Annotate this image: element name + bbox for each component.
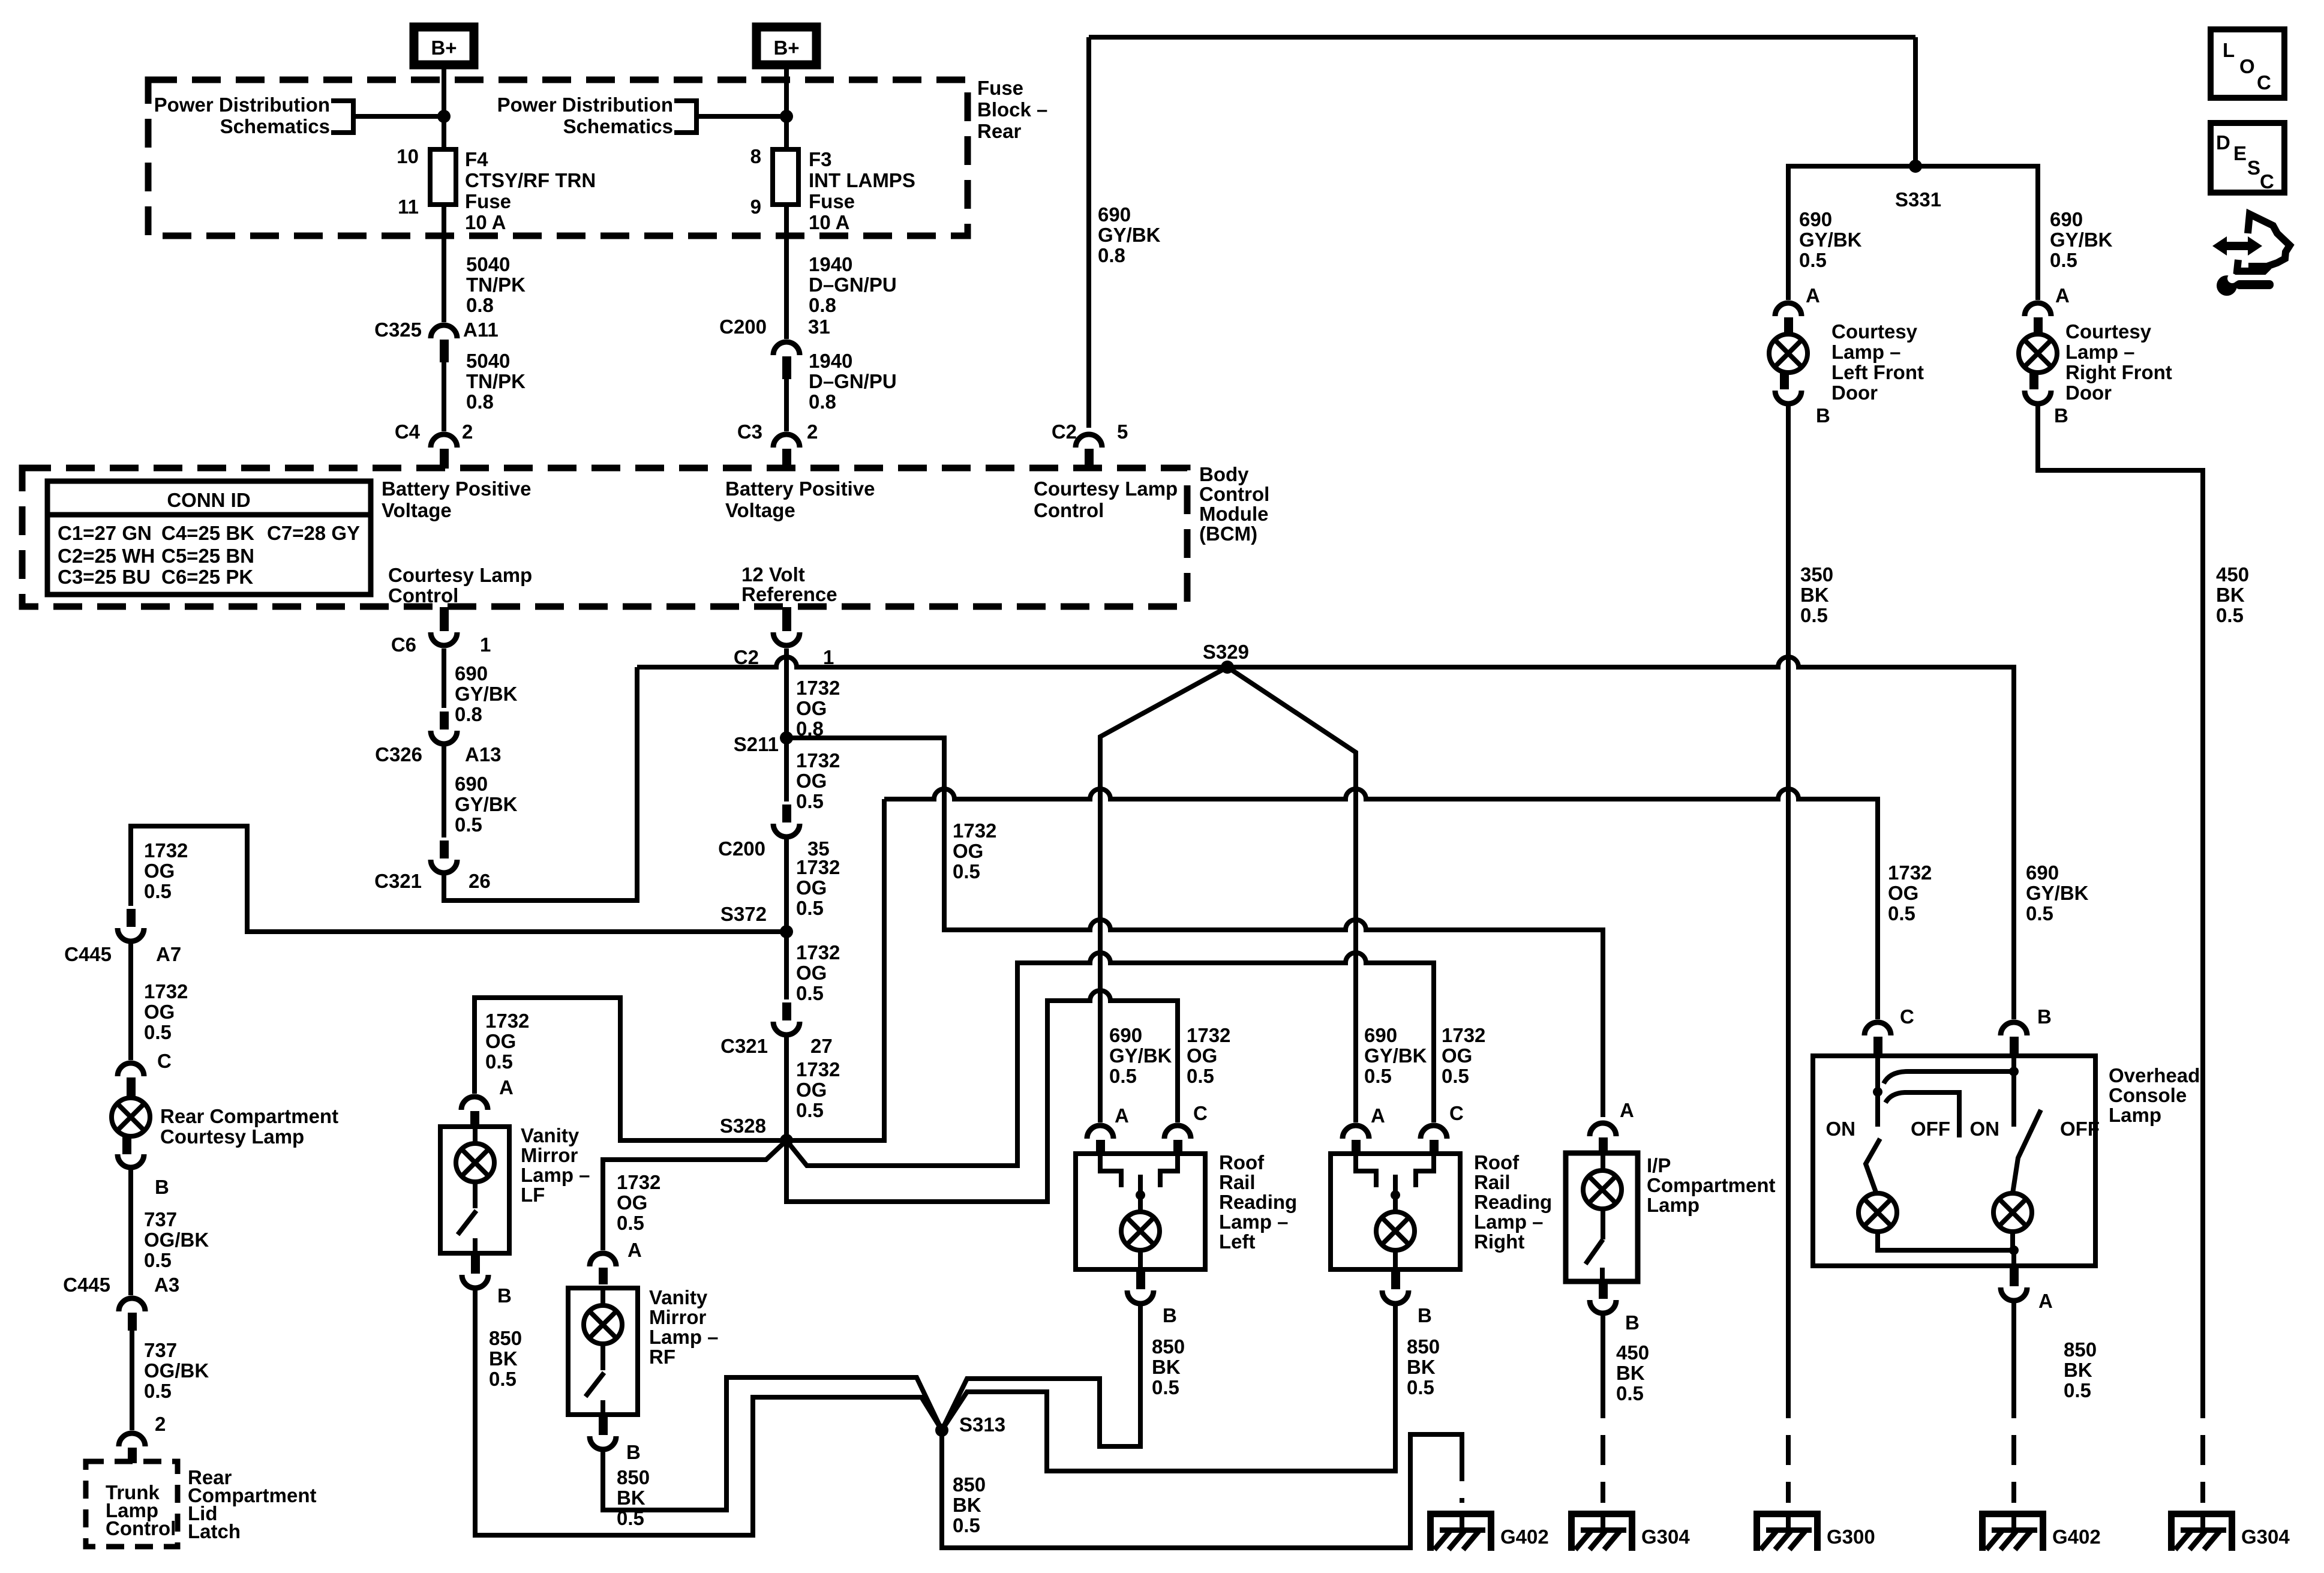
- fuse block - rear dashed outline: [148, 80, 968, 236]
- svg-text:C: C: [157, 1050, 172, 1072]
- svg-text:OG: OG: [796, 876, 827, 899]
- svg-text:31: 31: [808, 316, 830, 338]
- svg-text:690: 690: [1364, 1024, 1397, 1046]
- svg-text:737: 737: [144, 1208, 177, 1230]
- svg-text:OG: OG: [144, 860, 175, 882]
- connector C2 pin 1 (BCM bottom): [782, 607, 791, 631]
- svg-text:Schematics: Schematics: [563, 115, 673, 137]
- wire S328 to 1732 OG bus (overhead console C): [786, 799, 884, 1140]
- svg-text:850: 850: [1407, 1335, 1440, 1358]
- svg-text:C2=25 WH: C2=25 WH: [58, 545, 155, 567]
- svg-text:Lamp: Lamp: [1647, 1194, 1700, 1216]
- svg-text:1: 1: [823, 646, 834, 668]
- node: splice on F4 feed: [437, 110, 451, 123]
- svg-text:0.5: 0.5: [144, 880, 172, 902]
- wire 737 OG/BK 0.5 C445-A3 to trunk lamp control pin 2: [130, 1329, 134, 1430]
- wire 1732 OG 0.5 C200-35 to S372: [784, 839, 789, 932]
- svg-text:A13: A13: [465, 743, 502, 766]
- svg-text:Reading: Reading: [1219, 1191, 1297, 1213]
- wire 1732 OG 0.5 C321-27 to S328: [784, 1037, 789, 1140]
- wire S328 to vanity mirror lamp LF A: [475, 998, 786, 1140]
- svg-text:Courtesy Lamp: Courtesy Lamp: [1034, 478, 1178, 500]
- svg-text:GY/BK: GY/BK: [1109, 1044, 1172, 1067]
- svg-text:A3: A3: [154, 1274, 179, 1296]
- svg-text:Fuse: Fuse: [809, 190, 855, 212]
- svg-text:C: C: [1900, 1005, 1914, 1028]
- connector C321 pin 27: [782, 1002, 791, 1020]
- svg-text:0.8: 0.8: [809, 294, 836, 316]
- svg-text:850: 850: [2064, 1338, 2097, 1361]
- svg-text:BK: BK: [1152, 1356, 1181, 1378]
- svg-text:Mirror: Mirror: [649, 1306, 707, 1328]
- svg-text:B: B: [2037, 1005, 2052, 1028]
- svg-text:Courtesy Lamp: Courtesy Lamp: [388, 564, 532, 586]
- svg-text:A: A: [627, 1239, 642, 1261]
- svg-text:1732: 1732: [953, 819, 996, 842]
- svg-text:0.5: 0.5: [1187, 1065, 1214, 1087]
- svg-text:Rail: Rail: [1474, 1171, 1511, 1193]
- svg-text:27: 27: [810, 1035, 833, 1057]
- svg-text:Lamp –: Lamp –: [521, 1164, 590, 1186]
- svg-text:BK: BK: [2064, 1359, 2092, 1381]
- CONN ID table: [47, 481, 371, 595]
- svg-text:Roof: Roof: [1474, 1151, 1520, 1173]
- svg-text:1732: 1732: [796, 1058, 840, 1080]
- svg-text:5040: 5040: [466, 350, 510, 372]
- svg-text:S331: S331: [1895, 188, 1941, 211]
- svg-text:B: B: [1163, 1304, 1177, 1326]
- wire B+ to fuse F3: [784, 65, 789, 339]
- svg-text:OG: OG: [796, 1079, 827, 1101]
- svg-text:C: C: [1193, 1102, 1208, 1124]
- svg-text:1732: 1732: [796, 749, 840, 772]
- wire S328 to roof rail left C: [786, 990, 1178, 1202]
- roof rail reading lamp right connector C: [1421, 1125, 1447, 1139]
- svg-text:A: A: [1371, 1104, 1385, 1127]
- svg-text:Console: Console: [2109, 1084, 2187, 1106]
- roof rail reading lamp left connector B: [1136, 1269, 1145, 1289]
- svg-text:2: 2: [807, 421, 818, 443]
- I/P compartment lamp box: [1566, 1153, 1638, 1281]
- svg-text:OG: OG: [796, 770, 827, 792]
- svg-text:Overhead: Overhead: [2109, 1064, 2200, 1086]
- svg-text:CTSY/RF TRN: CTSY/RF TRN: [465, 169, 596, 191]
- wire 690 GY/BK 0.8 C6 to C326: [442, 649, 446, 708]
- svg-text:737: 737: [144, 1339, 177, 1361]
- wire S328 to vanity mirror lamp RF A: [603, 1140, 786, 1250]
- roof rail reading lamp left connector C: [1164, 1125, 1191, 1139]
- svg-text:Roof: Roof: [1219, 1151, 1265, 1173]
- svg-text:L: L: [2223, 39, 2235, 61]
- svg-text:0.5: 0.5: [2216, 604, 2244, 626]
- svg-text:2: 2: [155, 1413, 166, 1435]
- svg-text:C5=25 BN: C5=25 BN: [161, 545, 254, 567]
- svg-text:D–GN/PU: D–GN/PU: [809, 274, 897, 296]
- svg-text:0.5: 0.5: [144, 1380, 172, 1402]
- svg-text:1940: 1940: [809, 253, 852, 275]
- svg-text:INT LAMPS: INT LAMPS: [809, 169, 915, 191]
- svg-text:0.5: 0.5: [144, 1249, 172, 1271]
- vanity mirror lamp LF switch: [473, 1182, 478, 1208]
- svg-text:BK: BK: [1616, 1362, 1645, 1384]
- connector C326 pin A13: [440, 712, 449, 730]
- svg-text:2: 2: [462, 421, 473, 443]
- svg-text:Body: Body: [1199, 463, 1249, 485]
- svg-text:B: B: [626, 1441, 641, 1463]
- svg-text:OG: OG: [1187, 1044, 1217, 1067]
- wire 690 GY/BK 0.5 S331 to courtesy lamp right front door: [1915, 166, 2038, 300]
- svg-text:OFF: OFF: [1911, 1118, 1950, 1140]
- roof rail reading lamp right bulb: [1393, 1175, 1398, 1212]
- overhead console lamp connector B: [2001, 1022, 2027, 1035]
- svg-text:B: B: [497, 1284, 512, 1307]
- svg-text:Reading: Reading: [1474, 1191, 1552, 1213]
- svg-text:D: D: [2216, 131, 2230, 154]
- svg-text:GY/BK: GY/BK: [1364, 1044, 1427, 1067]
- node S211: [780, 731, 793, 745]
- svg-text:5040: 5040: [466, 253, 510, 275]
- svg-text:1732: 1732: [144, 980, 188, 1002]
- connector C321 pin 26: [440, 840, 449, 858]
- svg-text:0.5: 0.5: [2064, 1379, 2091, 1401]
- svg-text:0.5: 0.5: [953, 1514, 980, 1536]
- I/P compartment lamp switch: [1601, 1209, 1605, 1239]
- svg-text:690: 690: [455, 773, 488, 795]
- svg-text:Right: Right: [1474, 1230, 1524, 1253]
- svg-text:BK: BK: [489, 1347, 518, 1370]
- connector C200 pin 31: [773, 342, 800, 355]
- wire 1940 D-GN/PU 0.8 C200 to C3: [784, 379, 789, 431]
- fuse F3 INT LAMPS 10A: [773, 149, 798, 205]
- I/P compartment lamp connector B: [1599, 1279, 1608, 1299]
- svg-text:GY/BK: GY/BK: [2050, 229, 2113, 251]
- wire 690 GY/BK 0.8 BCM C2-5 to S331: [1086, 37, 1091, 428]
- svg-text:Compartment: Compartment: [1647, 1174, 1776, 1196]
- svg-text:OG: OG: [1442, 1044, 1472, 1067]
- svg-text:Control: Control: [388, 584, 458, 607]
- svg-text:F3: F3: [809, 148, 832, 170]
- svg-text:690: 690: [455, 662, 488, 685]
- svg-text:1732: 1732: [1187, 1024, 1230, 1046]
- roof rail reading lamp right contacts: [1356, 1154, 1376, 1187]
- wire 850 BK 0.5 S313 to G402: [942, 1430, 1462, 1548]
- service information icon (arrow, quarter panel, wrench): [2212, 214, 2290, 296]
- svg-text:GY/BK: GY/BK: [455, 683, 518, 705]
- roof rail reading lamp right connector A: [1343, 1125, 1369, 1139]
- svg-text:C4: C4: [395, 421, 421, 443]
- svg-text:Courtesy: Courtesy: [1831, 320, 1918, 343]
- svg-text:0.8: 0.8: [455, 703, 482, 725]
- svg-text:OG/BK: OG/BK: [144, 1359, 209, 1382]
- svg-text:S328: S328: [720, 1115, 766, 1137]
- svg-text:0.5: 0.5: [1109, 1065, 1137, 1087]
- wire 1732 OG 0.5 S211 to C200-35: [784, 738, 789, 801]
- svg-text:0.5: 0.5: [617, 1212, 644, 1234]
- svg-text:I/P: I/P: [1647, 1154, 1671, 1176]
- svg-text:1732: 1732: [1442, 1024, 1485, 1046]
- svg-text:C7=28 GY: C7=28 GY: [267, 522, 360, 544]
- svg-text:Block –: Block –: [977, 98, 1047, 121]
- svg-text:BK: BK: [953, 1494, 981, 1516]
- svg-text:10: 10: [397, 145, 419, 167]
- svg-text:C: C: [2260, 170, 2274, 193]
- svg-text:G300: G300: [1827, 1526, 1875, 1548]
- Body Control Module (BCM) dashed outline: [22, 468, 1187, 607]
- svg-text:OG: OG: [144, 1001, 175, 1023]
- svg-text:C6=25 PK: C6=25 PK: [161, 566, 253, 588]
- wire 737 OG/BK 0.5 lamp B to C445-A3: [128, 1170, 133, 1295]
- svg-text:D–GN/PU: D–GN/PU: [809, 370, 897, 392]
- svg-text:S313: S313: [959, 1413, 1005, 1436]
- vanity mirror lamp LF box: [440, 1127, 509, 1253]
- svg-text:0.5: 0.5: [485, 1050, 513, 1073]
- wire 1732 OG 0.8 C2-1 to S211: [784, 649, 789, 738]
- svg-text:Right Front: Right Front: [2065, 361, 2172, 383]
- svg-text:A: A: [1115, 1104, 1129, 1127]
- svg-text:690: 690: [1109, 1024, 1142, 1046]
- svg-text:0.8: 0.8: [809, 391, 836, 413]
- vanity mirror lamp LF connector A: [461, 1097, 488, 1110]
- connector C445 pin A7: [127, 909, 136, 927]
- overhead console lamp box: [1813, 1056, 2095, 1266]
- svg-text:C2: C2: [734, 646, 759, 668]
- svg-text:B: B: [1418, 1304, 1432, 1326]
- svg-text:Fuse: Fuse: [465, 190, 511, 212]
- bracket to Power Distribution Schematics (left): [331, 101, 353, 133]
- svg-text:B: B: [1625, 1311, 1640, 1334]
- ground G300 (courtesy left): [1753, 1511, 1875, 1551]
- wire 690 GY/BK 0.5 C326 to C321: [442, 746, 446, 837]
- svg-text:1732: 1732: [796, 941, 840, 963]
- svg-text:1732: 1732: [617, 1171, 660, 1193]
- LOC reference box: [2211, 29, 2284, 98]
- wire 1732 OG 0.5 S372 to C321-27: [784, 932, 789, 999]
- power symbol B+ (feeds F3): [756, 27, 816, 65]
- svg-text:G402: G402: [2052, 1526, 2101, 1548]
- svg-text:1732: 1732: [796, 677, 840, 699]
- svg-text:A7: A7: [156, 943, 181, 965]
- connector C325 pin A11: [431, 325, 457, 338]
- svg-text:Control: Control: [106, 1517, 176, 1539]
- svg-text:0.5: 0.5: [144, 1021, 172, 1043]
- svg-text:0.5: 0.5: [1799, 249, 1827, 271]
- svg-text:B+: B+: [431, 37, 457, 59]
- svg-text:0.8: 0.8: [1098, 244, 1125, 266]
- svg-text:BK: BK: [1800, 584, 1829, 606]
- svg-text:1732: 1732: [1888, 861, 1932, 884]
- svg-text:(BCM): (BCM): [1199, 523, 1257, 545]
- svg-text:0.5: 0.5: [455, 813, 482, 836]
- svg-text:B: B: [155, 1176, 169, 1198]
- svg-text:12 Volt: 12 Volt: [741, 563, 805, 586]
- overhead console right switch (ON/OFF): [2013, 1110, 2041, 1193]
- svg-text:S329: S329: [1203, 641, 1249, 663]
- svg-text:B: B: [1816, 404, 1830, 427]
- svg-text:C3=25 BU: C3=25 BU: [58, 566, 151, 588]
- overhead console lamp connector A: [2010, 1266, 2019, 1286]
- svg-text:C1=27 GN: C1=27 GN: [58, 522, 152, 544]
- svg-text:OG: OG: [796, 697, 827, 719]
- vanity mirror lamp RF box: [568, 1288, 638, 1415]
- svg-text:Lamp –: Lamp –: [1831, 341, 1901, 363]
- svg-text:Left Front: Left Front: [1831, 361, 1924, 383]
- svg-text:G402: G402: [1500, 1526, 1549, 1548]
- svg-text:850: 850: [489, 1327, 522, 1349]
- roof rail reading lamp left connector A: [1087, 1125, 1113, 1139]
- wire 350 BK 0.5 courtesy left B to G300: [1786, 406, 1791, 1388]
- svg-text:G304: G304: [1641, 1526, 1690, 1548]
- bracket to Power Distribution Schematics (right): [674, 101, 696, 133]
- wire S328 to roof rail right C: [786, 953, 1434, 1166]
- vanity mirror lamp LF connector B: [471, 1254, 480, 1274]
- svg-text:Lamp: Lamp: [2109, 1104, 2161, 1126]
- node S328: [780, 1134, 793, 1147]
- overhead console lamp bulb right: [1993, 1193, 2032, 1232]
- svg-text:0.5: 0.5: [1152, 1376, 1179, 1398]
- svg-text:OG: OG: [617, 1191, 647, 1214]
- svg-text:690: 690: [1098, 203, 1131, 226]
- svg-text:OG: OG: [953, 840, 983, 862]
- Trunk Lamp Control dashed box (rear compartment lid latch): [86, 1461, 178, 1547]
- svg-text:Mirror: Mirror: [521, 1144, 578, 1166]
- wire 1732 OG 0.5 C445-A7 to rear compartment courtesy lamp C: [128, 944, 133, 1060]
- svg-text:C6: C6: [391, 634, 416, 656]
- svg-text:RF: RF: [649, 1346, 675, 1368]
- svg-text:Control: Control: [1034, 499, 1104, 521]
- I/P compartment lamp connector A: [1590, 1123, 1616, 1136]
- svg-text:GY/BK: GY/BK: [1799, 229, 1862, 251]
- power symbol B+ (feeds F4): [414, 27, 474, 65]
- vanity mirror lamp RF switch: [600, 1344, 605, 1370]
- svg-text:G304: G304: [2241, 1526, 2290, 1548]
- roof rail reading lamp right box: [1331, 1154, 1460, 1269]
- svg-text:0.5: 0.5: [796, 897, 824, 919]
- overhead console lamp internal ground bus: [1878, 1232, 2014, 1250]
- svg-text:450: 450: [1616, 1341, 1649, 1364]
- wire 5040 TN/PK 0.8 C325 to C4: [442, 362, 446, 431]
- svg-text:0.5: 0.5: [796, 1099, 824, 1121]
- svg-text:10 A: 10 A: [809, 211, 849, 233]
- I/P compartment lamp bulb: [1601, 1153, 1605, 1170]
- roof rail reading lamp left bulb: [1138, 1175, 1143, 1212]
- svg-text:0.5: 0.5: [1888, 902, 1915, 924]
- DESC reference box: [2211, 123, 2284, 193]
- svg-text:Courtesy Lamp: Courtesy Lamp: [160, 1125, 304, 1148]
- svg-text:0.5: 0.5: [2050, 249, 2077, 271]
- svg-text:OG: OG: [796, 962, 827, 984]
- svg-text:Voltage: Voltage: [725, 499, 795, 521]
- svg-text:0.5: 0.5: [796, 790, 824, 812]
- svg-text:GY/BK: GY/BK: [1098, 224, 1161, 246]
- svg-text:1732: 1732: [796, 856, 840, 878]
- svg-text:F4: F4: [465, 148, 488, 170]
- svg-text:E: E: [2233, 142, 2247, 164]
- wire S329 branch to roof rail right A: [1227, 667, 1356, 1122]
- svg-text:C445: C445: [64, 943, 112, 965]
- svg-text:Rail: Rail: [1219, 1171, 1256, 1193]
- svg-text:A: A: [1806, 284, 1820, 307]
- svg-text:0.8: 0.8: [466, 391, 494, 413]
- svg-text:9: 9: [750, 196, 761, 218]
- wire B+ to fuse F4: [442, 65, 446, 322]
- svg-text:0.5: 0.5: [489, 1368, 517, 1390]
- connector pin 2 trunk lamp control: [119, 1433, 145, 1446]
- rear compartment courtesy lamp: [118, 1063, 144, 1076]
- svg-text:690: 690: [1799, 208, 1832, 230]
- svg-text:Power Distribution: Power Distribution: [154, 94, 330, 116]
- svg-text:850: 850: [617, 1466, 650, 1488]
- vanity mirror lamp RF connector B: [599, 1415, 608, 1435]
- svg-text:C4=25 BK: C4=25 BK: [161, 522, 254, 544]
- svg-text:TN/PK: TN/PK: [466, 370, 526, 392]
- svg-text:Reference: Reference: [741, 583, 837, 605]
- svg-text:CONN ID: CONN ID: [167, 489, 250, 511]
- svg-text:10 A: 10 A: [465, 211, 506, 233]
- svg-text:0.5: 0.5: [953, 860, 980, 882]
- svg-text:C321: C321: [374, 870, 422, 892]
- svg-text:0.5: 0.5: [1616, 1382, 1644, 1404]
- svg-text:Fuse: Fuse: [977, 77, 1023, 99]
- svg-text:TN/PK: TN/PK: [466, 274, 526, 296]
- node S372: [780, 925, 793, 938]
- svg-text:850: 850: [953, 1473, 986, 1496]
- svg-text:GY/BK: GY/BK: [455, 793, 518, 815]
- wire 450 BK 0.5 courtesy right B to G304: [2038, 406, 2203, 1388]
- roof rail reading lamp right connector B: [1391, 1269, 1400, 1289]
- svg-text:Control: Control: [1199, 483, 1269, 505]
- svg-text:BK: BK: [1407, 1356, 1436, 1378]
- svg-text:450: 450: [2216, 563, 2249, 586]
- overhead console left switch (ON/OFF): [1875, 1056, 1880, 1127]
- ground G402 (S313): [1427, 1511, 1549, 1551]
- svg-text:C445: C445: [63, 1274, 110, 1296]
- node S331: [1909, 160, 1922, 173]
- svg-text:LF: LF: [521, 1184, 545, 1206]
- svg-text:A11: A11: [463, 319, 499, 341]
- svg-text:Lamp –: Lamp –: [1219, 1211, 1289, 1233]
- connector C6 pin 1 (BCM bottom): [440, 607, 449, 631]
- svg-text:OG/BK: OG/BK: [144, 1229, 209, 1251]
- svg-text:0.5: 0.5: [1800, 604, 1828, 626]
- node: splice on F3 feed: [780, 110, 793, 123]
- connector C445 pin A3: [119, 1298, 145, 1311]
- svg-text:Courtesy: Courtesy: [2065, 320, 2152, 343]
- svg-text:C326: C326: [375, 743, 422, 766]
- svg-text:OG: OG: [1888, 882, 1918, 904]
- svg-text:11: 11: [398, 196, 419, 218]
- svg-text:A: A: [1620, 1099, 1634, 1121]
- svg-text:0.5: 0.5: [1407, 1376, 1434, 1398]
- svg-text:Left: Left: [1219, 1230, 1256, 1253]
- svg-text:350: 350: [1800, 563, 1833, 586]
- connector C200 pin 35: [782, 804, 791, 822]
- svg-text:Module: Module: [1199, 503, 1268, 525]
- svg-text:Door: Door: [2065, 382, 2112, 404]
- svg-text:S: S: [2247, 157, 2260, 179]
- svg-text:Rear Compartment: Rear Compartment: [160, 1105, 338, 1127]
- svg-text:0.5: 0.5: [796, 982, 824, 1004]
- svg-text:8: 8: [750, 145, 761, 167]
- svg-text:0.8: 0.8: [466, 294, 494, 316]
- wire S211 branch to I/P compartment lamp A: [786, 738, 1603, 1117]
- svg-text:0.5: 0.5: [1442, 1065, 1469, 1087]
- svg-text:0.5: 0.5: [2026, 902, 2053, 924]
- roof rail reading lamp left contacts: [1100, 1154, 1121, 1187]
- svg-text:Latch: Latch: [188, 1520, 241, 1542]
- svg-text:C2: C2: [1052, 421, 1077, 443]
- wire 690 GY/BK 0.5 S331 to courtesy lamp left front door: [1788, 166, 1915, 300]
- vanity mirror lamp RF bulb: [600, 1288, 605, 1305]
